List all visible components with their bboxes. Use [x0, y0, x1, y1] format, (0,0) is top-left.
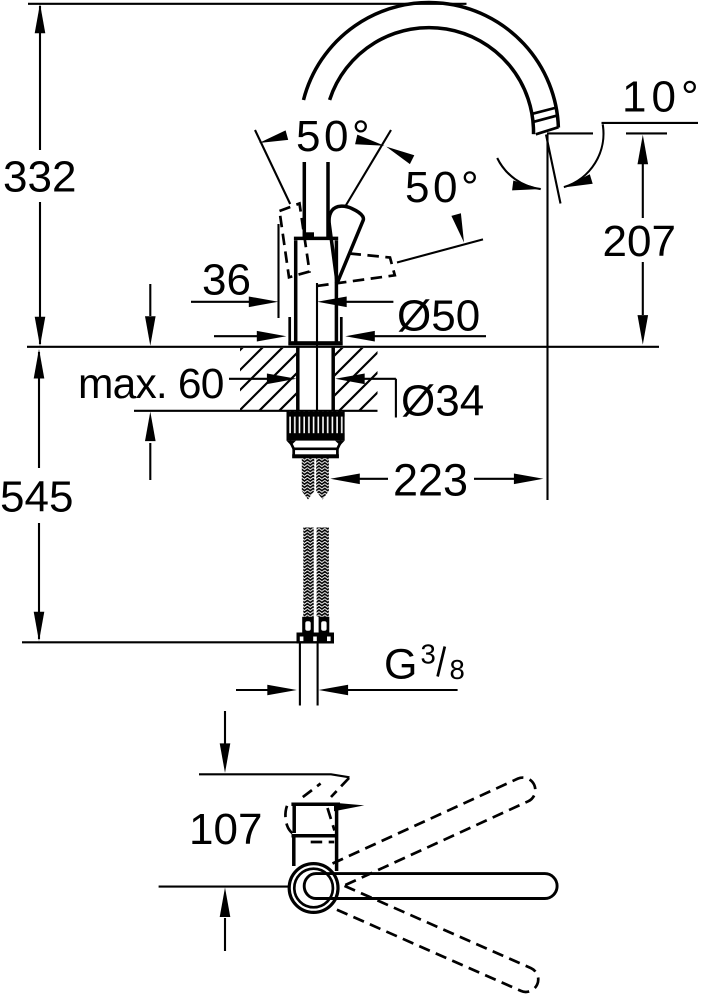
svg-text:Ø34: Ø34 [401, 377, 484, 426]
svg-text:max. 60: max. 60 [78, 361, 224, 408]
dim 545 vertical line [38, 352, 40, 639]
knurled mounting nut [287, 412, 345, 441]
outlet height line [547, 132, 667, 134]
svg-text:36: 36 [202, 256, 251, 305]
dashed handle down position [313, 254, 395, 287]
max60 top arrow [149, 284, 151, 316]
svg-text:332: 332 [3, 153, 76, 202]
spout drop vertical line [546, 135, 548, 501]
front view dashes upper [303, 784, 321, 798]
front body edges [294, 805, 337, 872]
front lever cap bottom [292, 834, 338, 838]
swivel arc right [564, 124, 604, 187]
hose pair lower [303, 528, 313, 617]
dim 223 line [359, 478, 515, 480]
spout inner arc [330, 28, 534, 135]
dim 36 extension line [277, 224, 279, 318]
dim 107 arrows [224, 711, 226, 744]
nut skirt [290, 441, 342, 449]
dashed tube up position [333, 774, 540, 887]
50deg arc arrow A3 [451, 213, 464, 242]
dim G38 line [236, 689, 458, 691]
dashed tube down position [334, 886, 542, 996]
front lever cap left edge [292, 804, 296, 833]
107 bottom reference line [159, 886, 290, 888]
base escutcheon left edge [288, 317, 291, 341]
connector block [297, 633, 335, 644]
50deg extension line L1 (up handle) [255, 130, 290, 204]
svg-text:50°: 50° [405, 163, 482, 212]
spout outer arc [304, 3, 559, 128]
solid handle lever [329, 206, 363, 282]
front dashed line inside body [311, 841, 335, 844]
svg-text:50°: 50° [296, 112, 373, 161]
50deg arc arrow A1 [259, 130, 288, 143]
aerator band line 2 [533, 116, 556, 122]
svg-text:Ø50: Ø50 [397, 292, 480, 341]
svg-text:3: 3 [421, 639, 436, 670]
10deg slanted line [546, 135, 561, 204]
body right edge [335, 240, 339, 342]
bearing outer circle [289, 864, 338, 913]
base escutcheon right edge [340, 317, 343, 341]
base plate band [288, 341, 342, 345]
dashed handle up position [280, 204, 310, 278]
shank lower block [294, 449, 338, 457]
aerator band line 1 [531, 108, 555, 114]
107 top reference line [199, 774, 350, 777]
dim 36 line [191, 301, 393, 303]
50deg bowtie arrow left [355, 135, 384, 146]
dim O34 line [364, 379, 396, 418]
shank right edge [331, 347, 335, 411]
swivel arc left [497, 158, 541, 189]
hose pair upper [302, 458, 315, 499]
spout tip face [536, 127, 559, 134]
dim 207 line [642, 164, 644, 315]
spout riser pipe lines [304, 162, 328, 238]
front lever cap top [291, 803, 340, 807]
dim O50 line [214, 335, 486, 337]
50deg extension line L2 (solid handle) [346, 130, 392, 206]
deck bottom line [134, 410, 378, 412]
spout tube (front view) [304, 874, 557, 899]
svg-text:223: 223 [393, 455, 468, 506]
supply pipe lines [300, 644, 318, 706]
max60 leader line [229, 378, 268, 380]
max60 bottom arrow [149, 443, 151, 480]
svg-text:8: 8 [450, 654, 465, 685]
shank left edge [296, 347, 300, 411]
dim 332 vertical line [39, 6, 41, 344]
centerline [316, 283, 318, 412]
svg-text:207: 207 [603, 217, 676, 266]
50deg extension line L3 (down handle) [397, 239, 483, 262]
hose end reference line [22, 641, 298, 643]
svg-text:10°: 10° [622, 73, 701, 122]
bearing inner circle [294, 869, 333, 908]
svg-text:545: 545 [0, 473, 73, 522]
50deg bowtie arrow right [386, 147, 414, 165]
body left edge [294, 240, 298, 342]
svg-text:G: G [384, 641, 417, 689]
cartridge tab [304, 232, 314, 238]
top tangent line [28, 3, 467, 5]
10deg reference line [602, 122, 699, 124]
svg-text:107: 107 [189, 805, 262, 854]
body top edge [294, 237, 338, 241]
deck top surface line [27, 346, 659, 348]
hose end nuts [302, 617, 314, 633]
